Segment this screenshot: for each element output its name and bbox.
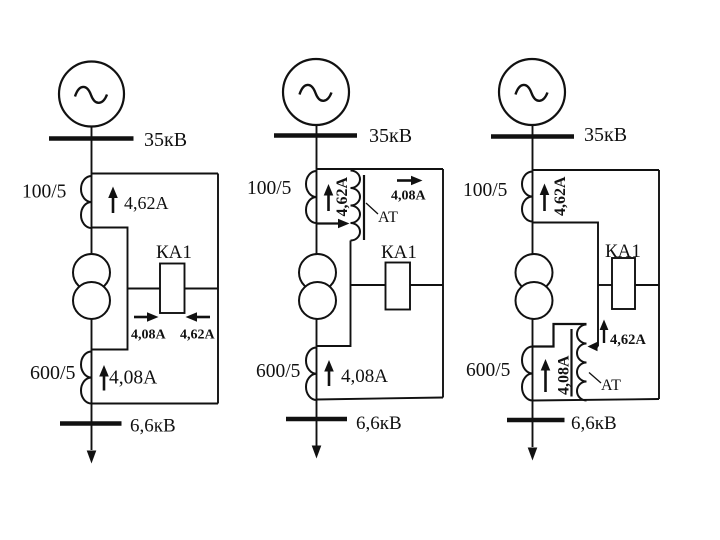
wire top tap [92,173,219,175]
label 100/5 [247,178,291,199]
bus 35kV middle [274,133,357,138]
wire bottom edge [92,403,219,405]
svg-text:4,62А: 4,62А [610,332,646,348]
wire to relay left [128,288,161,290]
wire top tap [317,168,444,170]
svg-text:4,62А: 4,62А [124,193,169,213]
label 4,62А small [610,332,646,348]
wire to relay left [351,284,386,286]
svg-text:4,08А: 4,08А [131,328,167,343]
autotransformer AT core bar [570,329,572,397]
label 600/5 [30,362,76,384]
CT 600/5 middle [306,348,317,401]
current arrow 4,08A lower [324,360,334,386]
svg-text:100/5: 100/5 [247,178,291,199]
svg-text:4,08А: 4,08А [341,366,388,387]
wire [532,125,534,255]
label 35кВ [584,124,627,146]
autotransformer AT core bar [363,175,365,240]
wire to relay right [410,284,443,286]
transformer T2 [299,254,336,319]
wire [91,127,93,255]
label 4,08А rotated [556,355,573,395]
wire right edge [442,169,444,398]
current arrow 4,62A up [324,184,334,211]
label 6,6кВ [571,413,617,434]
label КА1 [381,242,417,263]
label 35кВ [144,129,187,151]
wire [532,319,534,447]
feeder arrow down [528,448,538,461]
current arrow 4,08A lower [99,365,109,391]
svg-text:КА1: КА1 [156,242,192,263]
wire right edge [658,170,660,399]
wire CT1 tap down [533,223,599,347]
svg-text:4,62А: 4,62А [552,176,569,216]
wire bottom edge [317,398,444,400]
feeder arrow down [87,451,97,464]
bus 35kV left [49,136,134,141]
svg-text:35кВ: 35кВ [369,125,412,147]
current arrow 4,62A near wire [600,320,609,344]
bus 6,6kV left [60,421,122,426]
label 4,62А rotated [334,177,351,217]
label 4,62А upper [124,193,169,213]
svg-text:АТ: АТ [378,209,398,226]
svg-text:6,6кВ: 6,6кВ [130,416,176,437]
generator G2 [283,59,349,125]
label 6,6кВ [130,416,176,437]
wire to relay right [635,284,659,286]
autotransformer AT coil right [577,325,587,401]
svg-text:600/5: 600/5 [466,360,510,381]
svg-text:4,08А: 4,08А [556,355,573,395]
svg-text:4,08А: 4,08А [109,368,157,389]
current arrow 4,62A upper [108,187,118,214]
wire top tap [533,169,660,171]
label 4,08А small [131,328,167,343]
svg-text:100/5: 100/5 [22,182,66,203]
current arrow AT tap left [588,342,599,352]
label 4,08А lower [109,368,157,389]
generator G3 [499,59,565,125]
current arrow 4,62A up [540,184,550,212]
label АТ [601,377,621,394]
current arrow 4,08A up [541,359,551,392]
relay KA1 [612,258,635,309]
svg-text:35кВ: 35кВ [144,129,187,151]
current arrow 4,08A right [397,176,423,186]
label 100/5 [463,180,507,201]
wire step to AT [533,324,587,347]
current arrow AT tap [317,219,350,229]
wire AT down to CT 600/5 [317,241,351,347]
CT 100/5 right [522,171,533,221]
label АТ [378,209,398,226]
autotransformer AT coil [351,171,361,241]
svg-text:600/5: 600/5 [30,362,76,384]
bus 6,6kV middle [286,417,347,422]
current arrow into relay left [134,312,159,322]
wire to relay left [598,284,612,286]
wire [91,319,93,450]
leader line AT [589,373,601,384]
label 600/5 [256,361,300,382]
transformer T1 [73,254,110,319]
wire [316,125,318,255]
bus 6,6kV right [507,418,565,423]
label 4,62А rotated [552,176,569,216]
wire right edge [217,174,219,404]
generator G1 [59,62,124,127]
wire to relay right [185,288,219,290]
transformer T3 [516,254,553,319]
svg-text:4,08А: 4,08А [391,189,427,204]
svg-text:6,6кВ: 6,6кВ [356,413,402,434]
bus 35kV right [491,134,574,139]
CT 600/5 right [522,347,533,401]
svg-text:КА1: КА1 [381,242,417,263]
label 35кВ [369,125,412,147]
label 600/5 [466,360,510,381]
label 4,08А small [391,189,427,204]
svg-text:4,62А: 4,62А [180,328,216,343]
CT 100/5 middle [306,171,317,223]
wire bottom edge [533,399,660,401]
relay KA1 [386,263,411,310]
label КА1 [156,242,192,263]
label 4,08А lower [341,366,388,387]
current arrow into relay right [186,312,211,322]
CT 600/5 left [81,352,92,404]
label 6,6кВ [356,413,402,434]
svg-text:6,6кВ: 6,6кВ [571,413,617,434]
relay KA1 [160,264,185,314]
leader line AT [366,203,378,214]
wire CT1 secondary loop [92,228,128,350]
feeder arrow down [312,446,322,459]
label КА1 [605,241,641,262]
label 4,62А small [180,328,216,343]
wire [316,319,318,446]
svg-text:4,62А: 4,62А [334,177,351,217]
label 100/5 [22,182,66,203]
svg-text:600/5: 600/5 [256,361,300,382]
CT 100/5 left [81,176,92,228]
svg-text:100/5: 100/5 [463,180,507,201]
svg-text:35кВ: 35кВ [584,124,627,146]
svg-text:АТ: АТ [601,377,621,394]
